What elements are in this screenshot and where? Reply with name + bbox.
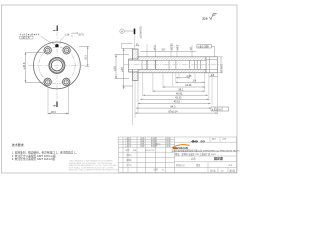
front view vertical centerline: [56, 32, 58, 95]
svg-text:固定座: 固定座: [214, 155, 223, 160]
svg-text:其余: 其余: [202, 16, 208, 20]
flange upper hatched: [133, 49, 139, 59]
pin hole filled: [55, 44, 58, 47]
svg-text:品名: 品名: [191, 157, 196, 161]
section line thin: [134, 34, 136, 49]
axis centerline over bore: [124, 64, 223, 66]
bolt circle centerline: [39, 47, 75, 83]
leader to pin hole: [41, 36, 57, 45]
chain row 40.81: [143, 94, 208, 96]
svg-text:⌀49: ⌀49: [120, 67, 124, 72]
svg-text:30°: 30°: [162, 47, 166, 51]
left vdim inner (hub dia): [115, 55, 130, 79]
svg-text:2021-7-22: 2021-7-22: [145, 150, 155, 152]
logo: [172, 145, 189, 150]
top extension lines: [147, 45, 192, 57]
chain row 38.1: [153, 90, 205, 92]
flange lower hatched: [133, 72, 139, 81]
svg-text:40.81: 40.81: [176, 92, 183, 95]
svg-text:4-⌀4.5▼⌀8▼4.4: 4-⌀4.5▼⌀8▼4.4: [20, 32, 40, 36]
center bore outer: [49, 57, 65, 73]
left revision table horizontals: [119, 139, 175, 141]
bottom hdim: [48, 113, 69, 115]
front view horizontal centerline: [28, 64, 88, 66]
svg-text:⌀4.5: ⌀4.5: [152, 45, 156, 51]
outer: [119, 137, 237, 173]
svg-text:2.05: 2.05: [187, 75, 192, 78]
svg-text:87±0.04: 87±0.04: [169, 110, 179, 113]
section cut mark top: [56, 26, 58, 32]
svg-text:2. 未注尺寸公差按照 GB/T 1804-m级: 2. 未注尺寸公差按照 GB/T 1804-m级: [12, 154, 56, 158]
svg-text:⌀30: ⌀30: [112, 66, 116, 71]
bore steps: [142, 60, 200, 69]
shaft right end (counterbored, no hatch): [206, 57, 218, 73]
svg-text:WITHOUT THE CONSENT PRIOR WRIT: WITHOUT THE CONSENT PRIOR WRITTEN NOTICE: [69, 170, 120, 172]
chain row 87: [135, 112, 218, 114]
left vdim: [26, 52, 45, 82]
svg-text:(H7): (H7): [79, 33, 84, 37]
right area lines: [175, 141, 237, 143]
shaft lower wall hatched: [138, 69, 206, 73]
finish mark on flange top: [136, 43, 139, 46]
chain row 14.46: [163, 86, 205, 88]
svg-text:⊙ ⌀0.05 A: ⊙ ⌀0.05 A: [198, 46, 210, 49]
border frame: [2, 5, 238, 173]
bottom extension lines: [47, 87, 49, 115]
svg-text:XINZHILIAN: XINZHILIAN: [173, 146, 188, 150]
leader from top-right callout: [60, 36, 65, 44]
leader balloon to cut bar: [124, 30, 134, 32]
extension verticals below: [133, 73, 218, 125]
chain row micro2: [176, 81, 205, 83]
dim L above flange: [122, 43, 133, 48]
section cut mark bottom: [56, 95, 58, 102]
section cut thick bar: [134, 29, 136, 35]
svg-text:45.53: 45.53: [174, 101, 181, 104]
section axis centerline: [124, 64, 223, 66]
svg-text:38.1: 38.1: [178, 88, 183, 91]
svg-text:A: A: [121, 29, 123, 33]
section balloon A: [120, 29, 124, 33]
shaft upper wall hatched: [138, 57, 206, 61]
svg-text:1. 去除毛刺，锐边倒钝﻾。未注倒角口 1。未注圆角口 1。: 1. 去除毛刺，锐边倒钝﻾。未注倒角口 1。未注圆角口 1。: [12, 150, 79, 154]
gray watermark block: [69, 160, 120, 172]
right end small dim: [209, 76, 218, 78]
svg-text:18.6: 18.6: [51, 110, 57, 114]
svg-text:43.33: 43.33: [175, 97, 182, 100]
svg-text:⌀36.6: ⌀36.6: [22, 62, 26, 69]
FCF top right: [197, 45, 215, 57]
svg-text:∥ 0.02 A: ∥ 0.02 A: [212, 107, 221, 111]
left vdim outer (flange dia): [122, 48, 133, 89]
bolt hole TL: [43, 45, 53, 55]
svg-text:⌀5.8±0.05: ⌀5.8±0.05: [139, 26, 143, 39]
right vdim (small): [79, 46, 90, 66]
bolt hole TR: [62, 45, 72, 55]
FCF under callout: [20, 36, 34, 39]
projection symbols: [191, 140, 205, 143]
chain row 84.3: [136, 107, 211, 109]
svg-text:⌀5.5H7: ⌀5.5H7: [220, 64, 224, 73]
chain row arrowheads: [176, 77, 178, 79]
bolt hole BL: [43, 77, 53, 87]
chain row micro1: [176, 77, 190, 79]
shaft bore area: [129, 60, 206, 69]
left verticals: [122, 137, 124, 173]
chain row 43.33: [140, 98, 209, 100]
svg-text:技术要求: 技术要求: [12, 142, 24, 147]
center bore chamfer: [50, 58, 64, 72]
hub (left boss): [129, 59, 133, 72]
top chain dim line: [141, 51, 197, 53]
svg-text:18.3: 18.3: [84, 55, 87, 60]
svg-text:⌀5.35: ⌀5.35: [170, 43, 174, 50]
svg-text:1.4: 1.4: [193, 80, 197, 83]
svg-text:⌀4.1: ⌀4.1: [176, 44, 180, 50]
svg-text:⌀5: ⌀5: [188, 46, 192, 50]
svg-text:⊥ ⌀0.1 A: ⊥ ⌀0.1 A: [20, 37, 30, 40]
FCF bottom right: [211, 107, 229, 111]
revision table text smudges: [125, 136, 170, 171]
center bore inner: [51, 60, 62, 71]
svg-text:14.46: 14.46: [185, 84, 192, 87]
svg-text:3. 未注形位公差按照 GB/T 1184-K级: 3. 未注形位公差按照 GB/T 1184-K级: [12, 157, 56, 161]
svg-text:84.3: 84.3: [171, 105, 176, 108]
chain row 45.53: [138, 103, 211, 105]
right side vdim: [220, 57, 222, 73]
outer circle: [34, 42, 81, 89]
bolt hole BR: [61, 77, 71, 87]
svg-text:⌀14: ⌀14: [65, 33, 70, 37]
